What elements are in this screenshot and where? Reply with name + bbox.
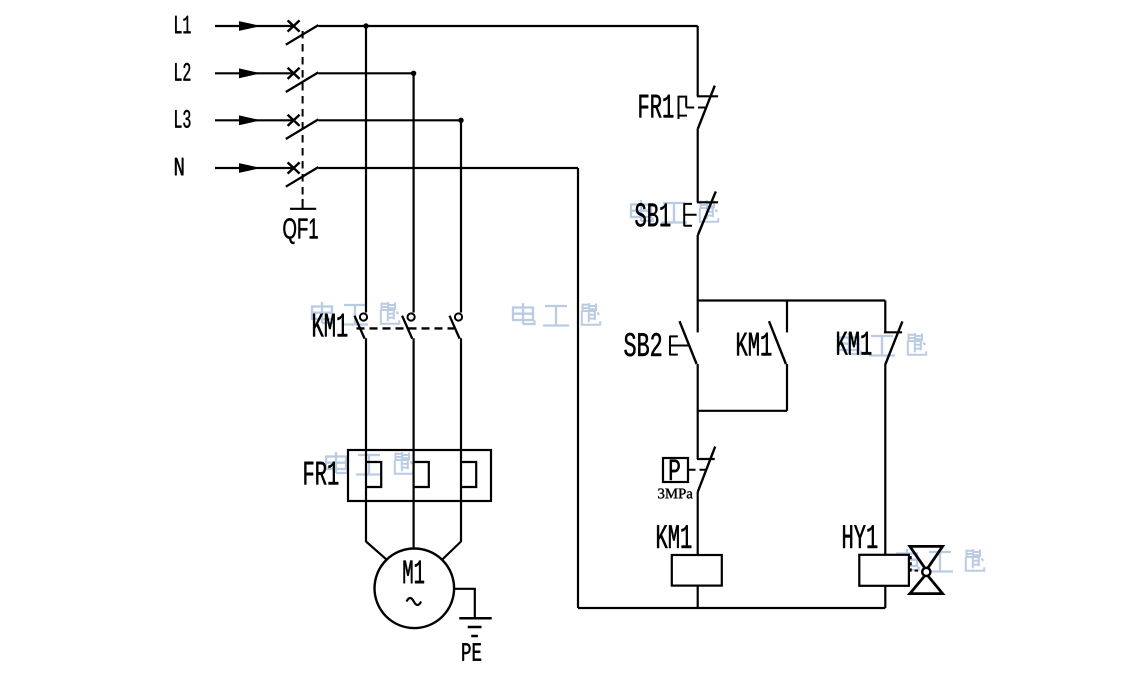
wire motor PE lead	[454, 589, 475, 618]
wire pole 1 below KM1	[365, 338, 367, 542]
wire L3 input	[215, 119, 294, 121]
stop button SB1 actuator	[684, 203, 696, 226]
wire KM1 holding branch return	[698, 410, 787, 412]
thermal relay FR1 heater element 3	[461, 462, 476, 487]
wire L1 input	[215, 25, 294, 27]
pressure switch P box	[663, 458, 688, 482]
wire right branch stub	[884, 301, 886, 333]
thermal relay FR1 heater element 1	[366, 462, 381, 487]
motor M1 label	[403, 561, 424, 584]
wire KM1 interlock to HY1 coil	[884, 365, 886, 555]
arrow L2 direction	[239, 68, 261, 78]
breaker QF1 pole L2 cross mark	[288, 68, 300, 79]
wire N input	[215, 167, 294, 169]
thermal relay FR1 box	[348, 450, 491, 501]
start button SB2 actuator	[670, 336, 685, 356]
wire phase 1 drop to KM1	[365, 26, 367, 313]
breaker QF1 pole L3 cross mark	[288, 115, 300, 126]
contact KM1 interlock blade	[885, 321, 902, 365]
wire HY1 coil to bottom rail	[884, 586, 886, 608]
wire motor lead 1 diagonal	[366, 542, 387, 560]
wire N to control drop	[318, 167, 578, 169]
wire phase 2 drop to KM1	[413, 73, 415, 312]
ground PE label	[462, 643, 481, 660]
node junction dot L1/phase-A tap	[363, 23, 368, 28]
watermark 5	[326, 452, 413, 475]
pressure switch seat bar	[697, 458, 715, 460]
node N label	[175, 158, 183, 175]
watermark 4	[839, 333, 926, 356]
wire L3 to tap	[318, 119, 461, 121]
breaker QF1 linkage (dashed)	[302, 31, 304, 201]
contactor KM1 main contact pole 2 blade	[402, 316, 412, 339]
start button SB2 label	[624, 333, 661, 356]
watermark 3	[513, 303, 600, 326]
wire FR1 to SB1	[697, 129, 699, 203]
contactor KM1 main contacts label	[313, 314, 347, 337]
watermark 2	[312, 302, 399, 325]
watermark 6	[897, 549, 984, 572]
contactor KM1 main contact pole 2 fixed terminal circle	[408, 313, 415, 320]
valve upper triangle	[910, 546, 943, 570]
thermal relay FR1 label	[304, 462, 338, 485]
contact KM1 holding blade	[769, 321, 786, 364]
stop button SB1 seat bar	[697, 201, 718, 203]
wire L2 input	[215, 72, 294, 74]
breaker QF1 actuator bar	[290, 208, 316, 210]
wire pole 2 below KM1	[413, 338, 415, 548]
thermal contact FR1 seat bar	[697, 95, 718, 97]
breaker QF1 pole L2 blade	[286, 72, 319, 92]
breaker QF1 label	[283, 218, 317, 244]
watermark 1	[631, 200, 718, 223]
wire KM1 holding branch lower	[786, 364, 788, 411]
contactor KM1 main contact pole 1 blade	[355, 316, 365, 339]
node junction dot L2 tap	[411, 71, 416, 76]
motor M1 circle	[375, 549, 455, 629]
contactor KM1 main contact pole 1 fixed terminal circle	[360, 313, 367, 320]
motor M1 AC tilde	[407, 598, 422, 605]
coil KM1 label	[657, 525, 691, 548]
breaker QF1 pole N blade	[286, 167, 319, 187]
valve center circle	[922, 568, 930, 576]
thermal contact FR1 blade	[698, 86, 715, 129]
wire SB1 to branch node	[697, 235, 699, 301]
stop button SB1 blade	[698, 191, 716, 235]
breaker QF1 pole L3 blade	[286, 119, 319, 139]
contactor KM1 linkage (dashed)	[357, 327, 458, 329]
node L3 label	[175, 110, 190, 128]
coil KM1 box	[672, 555, 722, 586]
wire motor lead 3 diagonal	[442, 542, 461, 560]
pressure switch P letter	[670, 460, 680, 480]
wire SB2 to P contact	[697, 364, 699, 459]
breaker QF1 pole L1 blade	[286, 25, 319, 45]
node L2 label	[175, 63, 190, 81]
contact KM1 holding label	[737, 333, 771, 356]
wire L1 bus to control branch	[318, 25, 697, 27]
stop button SB1 label	[635, 203, 670, 226]
solenoid HY1 label	[843, 525, 877, 548]
valve lower triangle	[910, 574, 943, 594]
thermal relay FR1 heater element 2	[414, 462, 429, 487]
wire control top rail to right branch	[698, 299, 886, 301]
wire KM1 coil to bottom rail	[697, 586, 699, 608]
contactor KM1 main contact pole 3 blade	[450, 316, 460, 339]
wire KM1 holding branch stub	[786, 301, 788, 333]
arrow L3 direction	[239, 115, 261, 125]
contact KM1 interlock label	[837, 332, 871, 355]
start button SB2 upper stub	[697, 301, 699, 333]
thermal contact FR1 label	[639, 95, 673, 118]
thermal contact FR1 actuator	[679, 96, 688, 119]
pressure switch 3MPa value label	[658, 489, 692, 499]
contact KM1 interlock seat bar	[884, 331, 902, 333]
pressure switch link dashes	[689, 469, 707, 471]
ground PE symbol	[459, 618, 491, 636]
wire N drop vertical	[577, 168, 579, 608]
wire control branch from L1 down	[697, 26, 699, 96]
node junction dot L3 tap	[458, 118, 463, 123]
solenoid HY1 link to valve (dashed)	[911, 556, 919, 571]
contactor KM1 main contact pole 3 fixed terminal circle	[455, 313, 462, 320]
arrow L1 direction	[239, 21, 261, 31]
arrow N direction	[239, 163, 261, 173]
wire L2 to tap	[318, 72, 413, 74]
wire phase 3 drop to KM1	[460, 120, 462, 312]
node L1 label	[175, 16, 190, 33]
pressure switch blade	[698, 447, 716, 492]
breaker QF1 pole L1 cross mark	[288, 20, 300, 31]
solenoid HY1 coil box	[859, 555, 909, 586]
breaker QF1 pole N cross mark	[288, 162, 300, 173]
wire P contact to KM1 coil	[697, 492, 699, 555]
wire pole 3 below KM1	[460, 338, 462, 542]
breaker QF1 actuator stem	[302, 199, 304, 209]
wire bottom control rail	[578, 607, 885, 609]
start button SB2 blade	[680, 321, 697, 364]
